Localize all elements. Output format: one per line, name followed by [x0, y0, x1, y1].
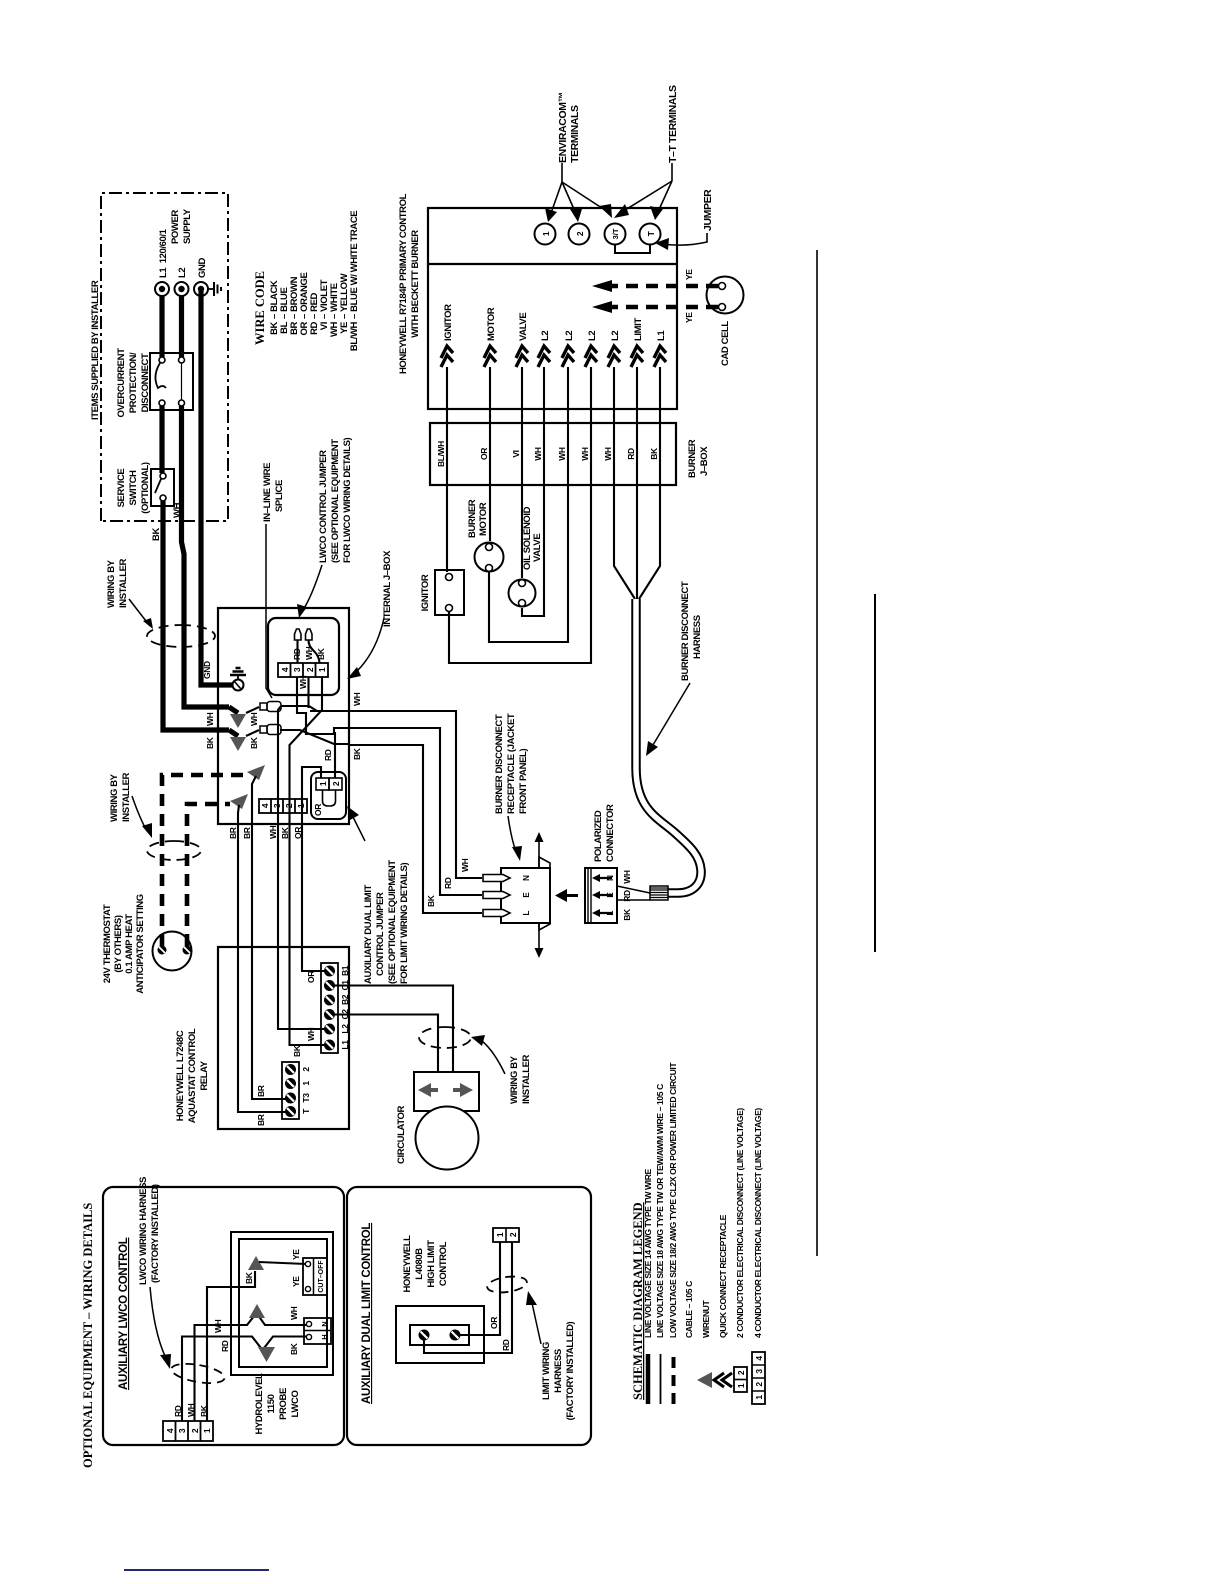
svg-text:OVERCURRENT: OVERCURRENT	[116, 348, 127, 418]
svg-text:L: L	[522, 910, 531, 915]
oil solenoid valve label	[522, 506, 543, 570]
wire BK lwco cell1 to aquastat L1	[290, 677, 328, 1045]
svg-text:WH: WH	[249, 712, 259, 726]
terminal T	[640, 224, 661, 245]
aquastat label	[175, 1028, 210, 1123]
svg-text:WH: WH	[213, 1319, 223, 1333]
power terminal GND	[194, 282, 208, 296]
aquastat L7248C box	[218, 947, 349, 1129]
wire GND to jbox screw	[201, 289, 232, 685]
svg-text:L1 120/60/1: L1 120/60/1	[158, 228, 169, 278]
WH splice labels	[205, 712, 259, 726]
svg-text:2: 2	[305, 667, 315, 672]
service switch box	[151, 469, 174, 506]
wire WH harness L2	[603, 367, 635, 599]
svg-text:WIRE CODE: WIRE CODE	[253, 271, 267, 345]
svg-text:WIRING BY: WIRING BY	[509, 1055, 520, 1104]
label WH	[172, 502, 183, 518]
svg-text:– BLUE W/ WHITE TRACE: – BLUE W/ WHITE TRACE	[349, 211, 360, 319]
power terminal L2	[175, 282, 189, 296]
legend 4 conductor disconnect	[752, 1108, 765, 1404]
svg-text:AUXILIARY DUAL LIMIT CONTROL: AUXILIARY DUAL LIMIT CONTROL	[361, 1223, 373, 1404]
svg-text:BURNER: BURNER	[467, 499, 478, 538]
svg-text:IGNITOR: IGNITOR	[420, 574, 431, 611]
wire BL/WH ignitor feed	[436, 367, 447, 572]
svg-text:T3: T3	[301, 1093, 311, 1103]
wire RD wirenut to BK to H	[182, 1337, 306, 1422]
label BK at L1	[292, 1044, 302, 1057]
label WH at j-box exit	[352, 692, 362, 706]
circulator circle	[416, 1107, 479, 1170]
svg-text:T: T	[646, 230, 656, 236]
svg-text:BURNER: BURNER	[687, 439, 698, 478]
svg-text:VALVE: VALVE	[532, 534, 543, 562]
lwco wiring harness label	[138, 1177, 171, 1369]
svg-text:L: L	[606, 910, 615, 915]
thermostat dashed wire 2	[187, 804, 230, 946]
svg-text:WH: WH	[268, 825, 278, 839]
wire RD to receptacle E	[344, 728, 482, 895]
svg-text:E: E	[522, 892, 531, 898]
svg-text:FOR LIMIT WIRING DETAILS): FOR LIMIT WIRING DETAILS)	[399, 863, 410, 984]
limit block 1 2	[493, 1228, 519, 1242]
service switch label	[116, 462, 151, 514]
svg-text:WH: WH	[289, 1306, 299, 1320]
cad cell label	[720, 321, 731, 366]
svg-text:L2: L2	[610, 331, 621, 341]
wire L2 from terminal to overcurrent	[179, 295, 184, 357]
auxiliary dual limit control box	[347, 1187, 591, 1445]
polarized connector pin arrows	[592, 874, 612, 917]
svg-text:2: 2	[754, 1382, 764, 1387]
wire VI valve feed	[511, 367, 522, 578]
svg-text:L2: L2	[564, 331, 575, 341]
svg-text:YE: YE	[684, 312, 694, 323]
svg-text:1: 1	[301, 1081, 311, 1086]
svg-text:CONTROL JUMPER: CONTROL JUMPER	[375, 892, 386, 976]
svg-text:LINE VOLTAGE SIZE 18 AWG TYPE: LINE VOLTAGE SIZE 18 AWG TYPE TW OR TEW/…	[655, 1084, 665, 1338]
L4080B boxes	[396, 1306, 484, 1363]
horizontal rule upper	[816, 250, 818, 1256]
svg-text:3: 3	[292, 667, 302, 672]
svg-text:4: 4	[260, 803, 270, 808]
svg-text:L4080B: L4080B	[414, 1248, 425, 1280]
svg-text:MOTOR: MOTOR	[478, 502, 489, 536]
svg-text:4: 4	[280, 667, 290, 672]
cut-off block	[303, 1258, 327, 1295]
honeywell R7184P primary control box	[428, 208, 677, 409]
svg-text:1: 1	[736, 1383, 746, 1388]
polarized connector letters L E N	[606, 875, 615, 916]
quick connect arrow BR1	[247, 765, 287, 1099]
wire OR screw to block 1	[460, 1242, 500, 1335]
svg-text:IN–LINE WIRE: IN–LINE WIRE	[262, 463, 273, 522]
label L2	[177, 268, 188, 278]
wiring by installer text (power)	[106, 558, 153, 629]
legend line voltage 18 awg	[655, 1084, 665, 1404]
receptacle letters L E N	[522, 875, 531, 916]
svg-text:1150: 1150	[266, 1394, 277, 1413]
svg-text:L1: L1	[340, 1040, 350, 1050]
svg-text:2: 2	[575, 231, 585, 236]
svg-text:HIGH LIMIT: HIGH LIMIT	[426, 1240, 437, 1288]
svg-text:(BY OTHERS): (BY OTHERS)	[113, 915, 124, 972]
svg-text:BK: BK	[280, 826, 290, 839]
svg-text:BK: BK	[205, 736, 215, 749]
label OR at B1	[306, 971, 316, 983]
svg-text:OR: OR	[306, 971, 316, 983]
svg-text:LINE VOLTAGE SIZE 14 AWG TYPE: LINE VOLTAGE SIZE 14 AWG TYPE TW WIRE	[643, 1168, 653, 1338]
svg-text:CONTROL: CONTROL	[438, 1241, 449, 1286]
svg-text:GND: GND	[197, 258, 208, 278]
svg-text:YE: YE	[291, 1276, 301, 1287]
svg-text:SPLICE: SPLICE	[274, 480, 285, 512]
svg-text:L2: L2	[340, 1024, 350, 1034]
label GND	[197, 258, 208, 278]
svg-text:WH: WH	[603, 447, 613, 461]
ignitor box	[435, 570, 464, 615]
jumper label and leader	[655, 189, 714, 250]
wire WH ignitor return L2	[449, 367, 591, 663]
svg-text:4 CONDUCTOR ELECTRICAL DISCONN: 4 CONDUCTOR ELECTRICAL DISCONNECT (LINE …	[753, 1108, 763, 1338]
svg-text:(FACTORY INSTALLED): (FACTORY INSTALLED)	[565, 1321, 576, 1420]
svg-text:AQUASTAT CONTROL: AQUASTAT CONTROL	[187, 1028, 198, 1123]
svg-text:H: H	[320, 1334, 329, 1339]
svg-text:WIRING BY: WIRING BY	[109, 773, 120, 822]
lwco harness dashed oval	[170, 1360, 226, 1386]
svg-text:BK: BK	[292, 1044, 302, 1057]
svg-text:OR: OR	[313, 804, 323, 816]
svg-text:CONNECTOR: CONNECTOR	[605, 804, 616, 862]
honeywell L4080B label	[402, 1235, 449, 1293]
svg-text:B2: B2	[340, 994, 350, 1005]
horizontal rule lower	[874, 594, 876, 952]
wire C1 to circulator	[335, 986, 453, 1073]
svg-text:1: 1	[541, 231, 551, 236]
ground symbol at j-box screw	[230, 668, 246, 679]
optional equipment title	[81, 1203, 95, 1468]
svg-text:GND: GND	[202, 661, 212, 679]
lwco strip 4 3 2 1	[163, 1421, 213, 1441]
receptacle label	[494, 713, 529, 861]
svg-text:DISCONNECT: DISCONNECT	[140, 353, 151, 412]
svg-text:SERVICE: SERVICE	[116, 469, 127, 508]
T-T leader lines	[614, 163, 672, 220]
ground symbol at power entry	[208, 282, 221, 296]
svg-text:OPTIONAL EQUIPMENT – WIRING DE: OPTIONAL EQUIPMENT – WIRING DETAILS	[81, 1203, 95, 1468]
svg-text:LOW VOLTAGE SIZE 18/2 AWG TYPE: LOW VOLTAGE SIZE 18/2 AWG TYPE CL2X OR P…	[668, 1062, 678, 1338]
svg-text:0.1 AMP HEAT: 0.1 AMP HEAT	[124, 914, 135, 974]
H N block	[304, 1318, 331, 1344]
svg-text:1: 1	[296, 803, 306, 808]
svg-text:N: N	[320, 1321, 329, 1326]
legend line voltage 14 awg	[643, 1168, 653, 1404]
wire code title	[253, 271, 267, 345]
svg-text:RD: RD	[622, 890, 632, 902]
wiring by installer oval (circulator)	[419, 1027, 471, 1048]
svg-text:BR: BR	[242, 827, 252, 839]
svg-text:N: N	[606, 875, 615, 881]
ground screw in j-box	[233, 680, 244, 691]
label L1 120/60/1 power supply	[158, 208, 193, 278]
svg-text:PROTECTION/: PROTECTION/	[128, 352, 139, 413]
svg-text:BR: BR	[228, 827, 238, 839]
svg-text:(FACTORY INSTALLED): (FACTORY INSTALLED)	[150, 1184, 161, 1283]
svg-text:RECEPTACLE (JACKET: RECEPTACLE (JACKET	[506, 713, 517, 814]
lwco strip labels RD WH BK	[292, 646, 326, 660]
wire WH splice output down to receptacle run	[281, 706, 317, 711]
svg-text:YE: YE	[684, 269, 694, 280]
wire WH to receptacle N	[310, 711, 482, 878]
svg-text:POLARIZED: POLARIZED	[593, 810, 604, 862]
svg-text:WH: WH	[580, 447, 590, 461]
internal j-box label	[347, 550, 393, 679]
svg-text:2: 2	[736, 1370, 746, 1375]
svg-text:BK: BK	[244, 1271, 254, 1284]
wire L1 BK from terminal to overcurrent	[159, 295, 164, 357]
svg-text:4: 4	[754, 1356, 764, 1361]
overcurrent label	[116, 348, 151, 418]
svg-text:HONEYWELL R7184P PRIMARY CONTR: HONEYWELL R7184P PRIMARY CONTROL	[398, 193, 409, 374]
svg-text:HONEYWELL: HONEYWELL	[402, 1235, 413, 1293]
wire labels column left of j-box	[228, 825, 303, 839]
jacket front panel flange	[539, 857, 550, 930]
overcurrent protection disconnect box	[150, 353, 193, 410]
svg-text:TERMINALS: TERMINALS	[569, 105, 581, 163]
service switch terminals and blade	[155, 473, 166, 501]
quick connect plug 1	[295, 629, 302, 663]
enviracom leader lines	[545, 163, 612, 222]
limit wiring harness label	[526, 1291, 576, 1420]
wire RD branch to jumper cell2	[334, 732, 336, 778]
svg-text:(SEE OPTIONAL EQUIPMENT: (SEE OPTIONAL EQUIPMENT	[330, 439, 341, 563]
svg-text:WH: WH	[172, 502, 183, 518]
svg-text:WH: WH	[460, 858, 470, 872]
in-line wire splice text	[262, 463, 285, 698]
legend cable 105C	[684, 1281, 694, 1338]
items supplied by installer box	[101, 193, 228, 521]
svg-text:(OPTIONAL): (OPTIONAL)	[140, 462, 151, 514]
svg-text:BK: BK	[649, 447, 659, 460]
wire BK service switch to corner	[163, 501, 229, 730]
svg-text:HYDROLEVEL: HYDROLEVEL	[254, 1373, 265, 1435]
svg-text:BURNER DISCONNECT: BURNER DISCONNECT	[494, 714, 505, 814]
circulator label	[396, 1105, 407, 1163]
polarized connector wire labels	[622, 870, 632, 921]
wire code entries	[269, 211, 360, 351]
svg-text:HONEYWELL L7248C: HONEYWELL L7248C	[175, 1030, 186, 1121]
label BK	[151, 528, 162, 541]
polarized connector label	[593, 804, 616, 862]
overcurrent blade L2	[181, 363, 183, 400]
oil solenoid valve	[509, 580, 536, 607]
auxiliary dual limit control title	[361, 1223, 373, 1404]
label BK at j-box exit	[352, 747, 362, 760]
svg-text:HARNESS: HARNESS	[553, 1349, 564, 1393]
svg-text:INTERNAL J–BOX: INTERNAL J–BOX	[382, 550, 393, 627]
svg-text:WIRENUT: WIRENUT	[701, 1300, 711, 1338]
power terminal L1	[155, 282, 169, 296]
svg-text:WH: WH	[557, 447, 567, 461]
wire BK to wirenut to YE cutoff	[207, 1249, 306, 1421]
wire RD screw to block 2	[424, 1242, 512, 1353]
wire C2 to circulator	[335, 1015, 438, 1073]
svg-text:FRONT PANEL): FRONT PANEL)	[518, 749, 529, 814]
wire WH quick connect to N	[195, 1304, 307, 1421]
lwco strip wire labels	[173, 1403, 209, 1417]
footer rule (blue)	[124, 1569, 269, 1571]
svg-text:HARNESS: HARNESS	[692, 615, 703, 659]
svg-text:J–BOX: J–BOX	[699, 446, 710, 476]
svg-text:1: 1	[317, 667, 327, 672]
svg-text:JUMPER: JUMPER	[702, 189, 714, 231]
24V thermostat label	[102, 894, 146, 994]
svg-text:YE: YE	[291, 1249, 301, 1260]
svg-text:WH: WH	[352, 692, 362, 706]
aux jumper block	[311, 772, 346, 819]
svg-text:3: 3	[177, 1428, 187, 1433]
svg-text:L2: L2	[540, 331, 551, 341]
thermostat dashed wire 1	[162, 775, 248, 946]
lwco terminal strip 4 3 2 1	[278, 663, 328, 677]
wire BK to receptacle L	[348, 745, 482, 913]
circulator box	[414, 1072, 479, 1111]
svg-text:3: 3	[754, 1369, 764, 1374]
wire BK splice output to receptacle run	[280, 730, 350, 744]
label GND on wire	[202, 661, 212, 679]
svg-text:BK: BK	[426, 894, 436, 907]
in-line wire splice WH	[229, 702, 281, 729]
svg-text:BL/WH: BL/WH	[349, 321, 360, 351]
svg-text:2 CONDUCTOR ELECTRICAL DISCONN: 2 CONDUCTOR ELECTRICAL DISCONNECT (LINE …	[735, 1108, 745, 1338]
svg-text:BR: BR	[256, 1114, 266, 1126]
svg-text:MOTOR: MOTOR	[486, 307, 497, 341]
svg-text:OR: OR	[479, 448, 489, 460]
svg-text:L1: L1	[656, 330, 667, 341]
svg-text:OR: OR	[293, 827, 303, 839]
quick connect arrows into R7184P	[441, 346, 666, 367]
terminal 1	[535, 224, 556, 245]
svg-text:BURNER DISCONNECT: BURNER DISCONNECT	[680, 581, 691, 681]
limit harness dashed oval	[486, 1274, 528, 1294]
circulator quick connect arrows	[418, 1083, 473, 1097]
svg-text:WIRING BY: WIRING BY	[106, 559, 117, 608]
svg-text:1: 1	[754, 1395, 764, 1400]
aquastat terminal strip B1 C1 B2 C2 L2 L1	[321, 963, 350, 1053]
wiring by installer text (circulator)	[471, 1035, 532, 1104]
svg-text:BK: BK	[352, 747, 362, 760]
svg-text:(SEE OPTIONAL EQUIPMENT: (SEE OPTIONAL EQUIPMENT	[387, 860, 398, 984]
burner disconnect harness cable	[636, 599, 701, 893]
svg-text:WITH BECKETT BURNER: WITH BECKETT BURNER	[410, 230, 421, 338]
BK splice labels	[205, 736, 259, 749]
receptacle prongs	[483, 875, 510, 917]
svg-text:L2: L2	[587, 331, 598, 341]
mating arrow	[555, 889, 578, 902]
svg-text:1: 1	[202, 1428, 212, 1433]
svg-text:RD: RD	[626, 448, 636, 460]
overcurrent terminals	[159, 357, 185, 406]
wire RD harness limit	[626, 367, 637, 599]
svg-text:CUT–OFF: CUT–OFF	[318, 1260, 325, 1293]
cad cell	[707, 277, 744, 314]
svg-text:L2: L2	[177, 268, 188, 278]
svg-text:QUICK CONNECT RECEPTACLE: QUICK CONNECT RECEPTACLE	[718, 1214, 728, 1338]
svg-text:CABLE – 105 C: CABLE – 105 C	[684, 1281, 694, 1338]
svg-text:RD: RD	[443, 877, 453, 889]
burner j-box label	[687, 439, 710, 478]
aquastat T T 1 2 strip	[282, 1062, 311, 1119]
svg-text:2: 2	[331, 781, 341, 786]
svg-text:BK: BK	[622, 908, 632, 921]
burner disconnect harness label	[646, 581, 703, 756]
terminal 3/T	[605, 224, 626, 245]
svg-text:RD: RD	[501, 1339, 511, 1351]
burner j-box	[430, 423, 676, 485]
wire RD lwco cell3 to limit run	[297, 677, 346, 761]
lwco control jumper text	[297, 437, 353, 618]
svg-text:24V THERMOSTAT: 24V THERMOSTAT	[102, 904, 113, 983]
wire BK harness L1	[639, 367, 660, 599]
svg-text:T–T TERMINALS: T–T TERMINALS	[667, 85, 679, 163]
svg-text:ANTICIPATOR SETTING: ANTICIPATOR SETTING	[135, 894, 146, 994]
burner disconnect receptacle box	[501, 868, 550, 923]
polarized connector body	[585, 868, 650, 923]
svg-text:BK: BK	[151, 528, 162, 541]
svg-text:LWCO WIRING HARNESS: LWCO WIRING HARNESS	[138, 1177, 149, 1285]
svg-text:4: 4	[165, 1428, 175, 1433]
svg-text:OR: OR	[489, 1317, 499, 1329]
svg-text:LIMIT WIRING: LIMIT WIRING	[541, 1342, 552, 1400]
svg-text:BK: BK	[249, 736, 259, 749]
svg-text:RD: RD	[220, 1340, 230, 1352]
svg-text:ITEMS SUPPLIED BY INSTALLER: ITEMS SUPPLIED BY INSTALLER	[90, 280, 101, 420]
24V thermostat	[153, 932, 192, 971]
wire OR jumper to aquastat B1	[302, 767, 327, 971]
svg-text:WH: WH	[306, 1027, 316, 1041]
svg-text:2: 2	[508, 1232, 518, 1237]
svg-text:WH: WH	[533, 447, 543, 461]
svg-text:N: N	[522, 875, 531, 881]
harness grommet	[650, 886, 668, 900]
svg-text:BK: BK	[289, 1342, 299, 1355]
svg-text:WH: WH	[298, 675, 308, 689]
svg-text:3: 3	[272, 803, 282, 808]
internal j-box	[218, 608, 349, 824]
R7184P title	[398, 193, 421, 374]
wire WH motor return L2	[489, 367, 568, 642]
quick connect plug 2	[306, 629, 320, 663]
svg-text:3/T: 3/T	[611, 228, 620, 239]
wiring by installer oval (thermostat)	[147, 841, 201, 860]
lower terminal strip 4 3 2 1	[259, 799, 307, 813]
svg-text:IGNITOR: IGNITOR	[443, 304, 454, 341]
cad cell dashed wire YE 1	[592, 269, 718, 292]
svg-text:LWCO CONTROL JUMPER: LWCO CONTROL JUMPER	[318, 450, 329, 563]
lwco rounded box	[268, 618, 339, 695]
legend 2 conductor disconnect	[734, 1108, 747, 1392]
svg-text:AUXILIARY DUAL LIMIT: AUXILIARY DUAL LIMIT	[363, 884, 374, 984]
hydrolevel outer box	[231, 1232, 333, 1375]
svg-text:BL/WH: BL/WH	[436, 441, 446, 467]
svg-text:RELAY: RELAY	[199, 1060, 210, 1090]
hydrolevel label	[254, 1373, 301, 1435]
svg-text:SUPPLY: SUPPLY	[182, 208, 193, 244]
wire WH branch to lwco cell2	[298, 675, 309, 708]
svg-text:WH: WH	[622, 870, 632, 884]
legend quick connect	[714, 1214, 732, 1387]
ignitor label	[420, 574, 431, 611]
